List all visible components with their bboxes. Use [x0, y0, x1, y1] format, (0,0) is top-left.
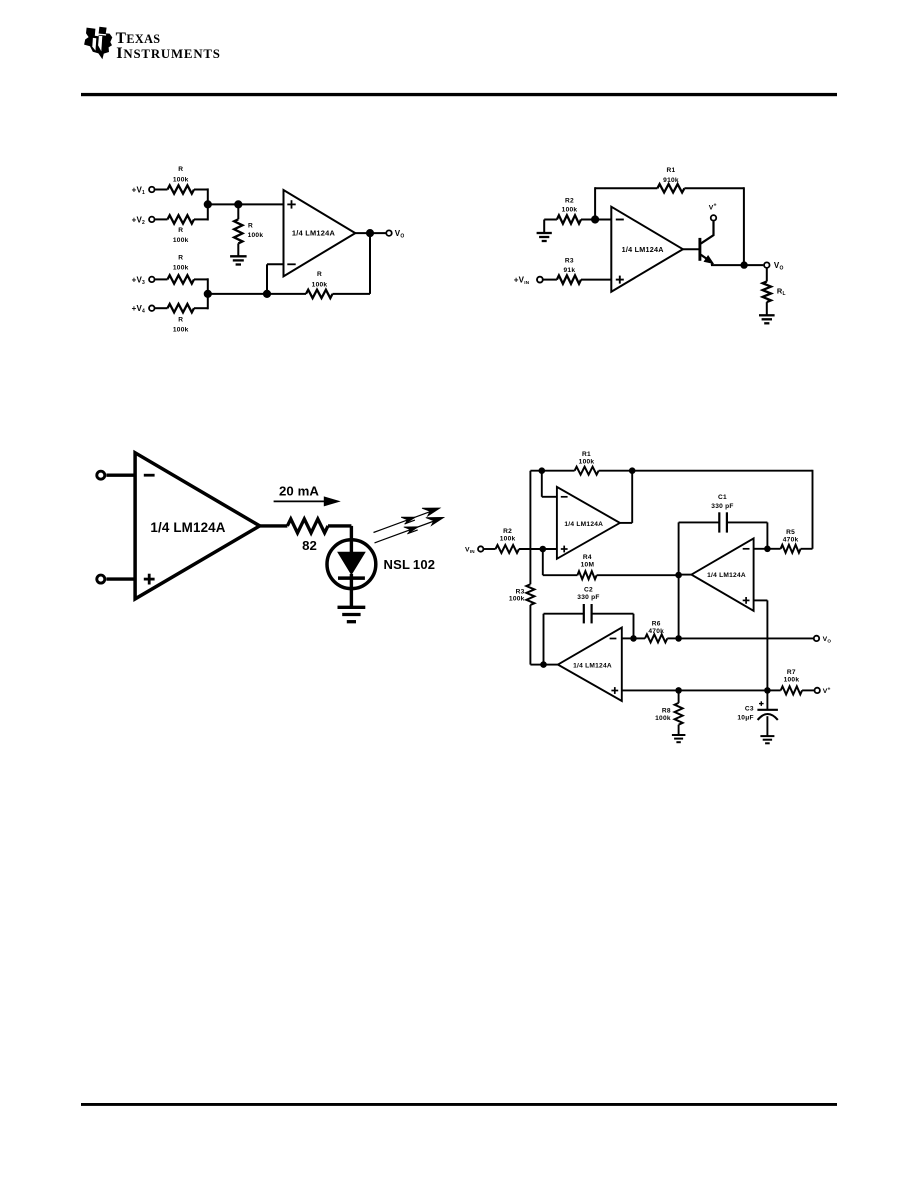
svg-text:R: R: [178, 166, 183, 173]
wire R1 right / top line: [599, 470, 813, 472]
wire feedback vertical: [369, 233, 371, 294]
svg-text:VO: VO: [774, 261, 784, 272]
wire feedback to R: [333, 293, 371, 295]
op-amp 1/4 LM124A (LED driver): [135, 453, 260, 599]
wire op-amp output to resistor: [260, 524, 288, 527]
wire VO line: [679, 637, 814, 639]
resistor R1 100k: [575, 451, 599, 475]
op-amp U1 1/4 LM124A: [611, 207, 683, 292]
svg-text:100k: 100k: [173, 327, 189, 334]
wire +V4 to R: [155, 307, 167, 309]
wire node C to op-amp - input: [267, 264, 284, 294]
svg-text:R6: R6: [652, 620, 661, 627]
svg-text:100k: 100k: [655, 715, 671, 722]
svg-text:1/4 LM124A: 1/4 LM124A: [622, 245, 664, 254]
op-amp B 1/4 LM124A (points left): [691, 538, 753, 610]
svg-text:100k: 100k: [173, 176, 189, 183]
node C3/R7 junction: [764, 687, 771, 694]
svg-text:100k: 100k: [784, 676, 800, 683]
svg-text:910k: 910k: [663, 177, 679, 184]
wire feedback right vertical: [743, 187, 745, 265]
wire feedback left vertical: [594, 187, 596, 219]
resistor 82: [287, 519, 328, 553]
terminal VO: [814, 636, 832, 644]
svg-text:82: 82: [302, 538, 317, 553]
svg-text:330 pF: 330 pF: [577, 594, 599, 601]
svg-text:+V2: +V2: [132, 215, 145, 226]
svg-text:RL: RL: [777, 286, 786, 297]
wire feedback top-right: [684, 187, 744, 189]
terminal VIN: [465, 546, 483, 554]
node inverting input junction: [591, 215, 599, 223]
wire op-amp B - input: [754, 548, 768, 550]
ground (R8): [672, 735, 686, 742]
svg-text:10M: 10M: [581, 562, 595, 569]
svg-text:R: R: [178, 227, 183, 234]
svg-text:INSTRUMENTS: INSTRUMENTS: [116, 43, 221, 62]
wire to op-amp + input: [106, 577, 135, 580]
svg-text:C1: C1: [718, 494, 727, 501]
wire R to node D: [194, 307, 208, 309]
terminal input - (top): [97, 471, 105, 479]
svg-text:100k: 100k: [248, 232, 264, 239]
wire node A to op-amp + input: [207, 203, 284, 205]
wire left drop (R1 to R3): [529, 471, 531, 585]
wire R to node A: [194, 189, 208, 191]
svg-text:+V3: +V3: [132, 275, 145, 286]
svg-text:R2: R2: [503, 528, 512, 535]
wire feedback top-left: [595, 187, 657, 189]
op-amp U1 1/4 LM124A: [284, 190, 356, 276]
svg-text:R5: R5: [786, 529, 795, 536]
wire op-amp B output column: [678, 522, 680, 638]
svg-text:100k: 100k: [500, 536, 516, 543]
terminal +VIN: [514, 276, 543, 286]
wire R to node D: [194, 278, 208, 280]
node output junction: [740, 261, 747, 268]
svg-text:R3: R3: [516, 588, 525, 595]
svg-text:+V1: +V1: [132, 185, 145, 196]
resistor R 100k (V2 input): [168, 215, 195, 244]
node op-amp C output junction: [540, 661, 547, 668]
label NSL102: [384, 557, 436, 572]
capacitor C3 10uF (polarized): [737, 690, 778, 736]
light emission arrow (lower): [375, 517, 444, 543]
terminal VO: [764, 261, 783, 272]
label 20 mA current arrow: [274, 484, 339, 506]
wire R2 to ground stub: [544, 220, 557, 233]
wire +V2 to R: [155, 218, 167, 220]
capacitor C2 330 pF: [544, 587, 634, 665]
resistor R 100k (V4 input): [168, 304, 195, 334]
resistor R7 100k: [767, 669, 814, 695]
capacitor C1 330 pF: [679, 494, 768, 549]
wire op-amp A output: [620, 471, 632, 523]
wire node D to node C: [208, 293, 267, 295]
ground (below R 100k): [230, 256, 247, 264]
svg-text:1/4 LM124A: 1/4 LM124A: [564, 521, 603, 528]
svg-text:R1: R1: [582, 451, 591, 458]
svg-text:91k: 91k: [564, 267, 576, 274]
svg-text:V+: V+: [823, 686, 831, 695]
node op-amp B - input junction: [764, 546, 771, 553]
svg-text:R8: R8: [662, 708, 671, 715]
wire to op-amp A - input: [542, 471, 557, 497]
node D junction: [204, 290, 212, 298]
svg-text:R2: R2: [565, 197, 574, 204]
terminal +V2: [132, 215, 155, 226]
svg-text:+VIN: +VIN: [514, 276, 530, 286]
transistor Q1 NPN emitter follower: [700, 221, 714, 265]
wire R2 to op-amp A + input: [519, 548, 557, 550]
TI logo Texas-map mark: [84, 27, 112, 60]
resistor R 100k (to ground): [234, 204, 263, 256]
svg-text:470k: 470k: [783, 536, 799, 543]
wire R4 to op-amp B output node: [597, 574, 679, 576]
top horizontal rule: [81, 93, 837, 96]
node VO line junction: [675, 635, 682, 642]
wire to op-amp - input: [106, 474, 135, 477]
svg-text:10μF: 10μF: [737, 714, 753, 721]
svg-text:100k: 100k: [579, 459, 595, 466]
wire op-amp output to transistor base: [683, 248, 699, 250]
node op-amp A output junction: [629, 467, 636, 474]
TI logo wordmark INSTRUMENTS: [116, 43, 221, 62]
svg-text:R3: R3: [565, 257, 574, 264]
svg-text:R: R: [178, 316, 183, 323]
wire op-amp C - input: [622, 637, 634, 639]
op-amp C 1/4 LM124A (points left): [558, 628, 622, 702]
resistor R6 470k: [634, 620, 679, 642]
terminal VO: [386, 229, 404, 240]
node C junction: [263, 290, 271, 298]
svg-text:100k: 100k: [562, 207, 578, 214]
wire V+ line (op-amp C + input): [622, 689, 768, 691]
svg-text:R4: R4: [583, 554, 592, 561]
bottom horizontal rule: [81, 1103, 837, 1106]
terminal input + (bottom): [97, 575, 105, 583]
svg-text:C2: C2: [584, 587, 593, 594]
svg-text:C3: C3: [745, 706, 754, 713]
svg-text:+V4: +V4: [132, 304, 145, 315]
wire V3/V4 junction vertical: [207, 278, 209, 309]
svg-text:100k: 100k: [173, 265, 189, 272]
resistor R1 910k: [657, 167, 684, 193]
terminal +V1: [132, 185, 155, 196]
svg-text:1/4 LM124A: 1/4 LM124A: [292, 229, 336, 238]
svg-text:470k: 470k: [648, 628, 664, 635]
light emission arrow (upper): [374, 508, 441, 533]
wire VIN to R2: [484, 548, 496, 550]
svg-text:330 pF: 330 pF: [711, 503, 733, 510]
svg-text:R1: R1: [667, 167, 676, 174]
node A junction: [204, 200, 212, 208]
wire emitter to output node: [711, 264, 763, 266]
wire +VIN to R3: [543, 279, 557, 281]
svg-text:V+: V+: [709, 203, 717, 212]
wire R to node C: [267, 293, 306, 295]
svg-text:R: R: [248, 222, 253, 229]
svg-text:VO: VO: [823, 636, 832, 644]
resistor R4 10M: [577, 554, 596, 579]
svg-text:R: R: [178, 254, 183, 261]
wire op-amp B + input: [754, 600, 768, 690]
resistor R8 100k: [655, 690, 682, 735]
svg-text:R7: R7: [787, 669, 796, 676]
op-amp A 1/4 LM124A: [557, 487, 620, 559]
wire junction down to R4: [543, 549, 578, 575]
svg-text:1/4 LM124A: 1/4 LM124A: [150, 520, 225, 535]
resistor RL load: [763, 269, 786, 316]
node VIN junction: [540, 546, 547, 553]
node R1 left junction: [539, 467, 546, 474]
wire R3 to op-amp C output node: [530, 605, 543, 665]
node output junction: [366, 229, 374, 237]
wire op-amp B output (apex): [679, 574, 692, 576]
terminal +V4: [132, 304, 155, 315]
wire resistor to LED anode: [328, 526, 351, 553]
svg-text:VO: VO: [395, 229, 405, 240]
svg-text:20 mA: 20 mA: [279, 484, 319, 499]
svg-text:1/4 LM124A: 1/4 LM124A: [573, 662, 612, 669]
svg-text:100k: 100k: [312, 281, 328, 288]
wire +V1 to R: [155, 189, 167, 191]
LED NSL102: [327, 540, 376, 607]
svg-text:100k: 100k: [509, 595, 525, 602]
ground (C3): [760, 736, 774, 743]
resistor R5 470k: [767, 470, 812, 553]
wire op-amp output: [355, 232, 386, 234]
resistor R2 100k: [557, 197, 581, 223]
svg-text:NSL 102: NSL 102: [384, 557, 436, 572]
svg-text:VIN: VIN: [465, 547, 475, 555]
wire R3 to op-amp + input: [581, 279, 611, 281]
resistor R2 100k: [496, 528, 520, 553]
ground (LED cathode): [338, 607, 366, 621]
wire +V3 to R: [155, 278, 167, 280]
resistor R 100k (V3 input): [168, 254, 195, 283]
wire V1/V2 junction vertical: [207, 188, 209, 220]
TI logo wordmark TEXAS: [116, 30, 161, 47]
terminal V+ (collector): [709, 203, 717, 221]
svg-text:R: R: [317, 271, 322, 278]
ground (RL): [759, 315, 775, 323]
wire op-amp C output (apex): [544, 664, 558, 666]
resistor R3 91k: [557, 257, 581, 283]
svg-text:100k: 100k: [173, 237, 189, 244]
terminal V+: [815, 686, 831, 695]
resistor R3 100k: [509, 584, 534, 605]
wire R to node A: [194, 218, 208, 220]
svg-text:1/4 LM124A: 1/4 LM124A: [707, 572, 746, 579]
node R8 junction: [675, 687, 682, 694]
resistor R 100k (V1 input): [168, 166, 195, 194]
resistor R 100k (feedback): [306, 271, 333, 298]
node B junction: [234, 200, 242, 208]
wire R2 node to op-amp - input: [581, 219, 611, 221]
terminal +V3: [132, 275, 155, 286]
ground (R2): [537, 233, 552, 241]
wire R1 left segment: [530, 470, 574, 472]
node op-amp B output junction: [675, 572, 682, 579]
node op-amp C - input junction: [630, 635, 637, 642]
